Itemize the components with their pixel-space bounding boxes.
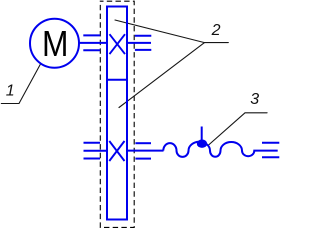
svg-text:M: M <box>42 24 68 65</box>
svg-text:3: 3 <box>250 91 259 108</box>
svg-text:1: 1 <box>6 83 15 100</box>
svg-text:2: 2 <box>211 22 221 39</box>
